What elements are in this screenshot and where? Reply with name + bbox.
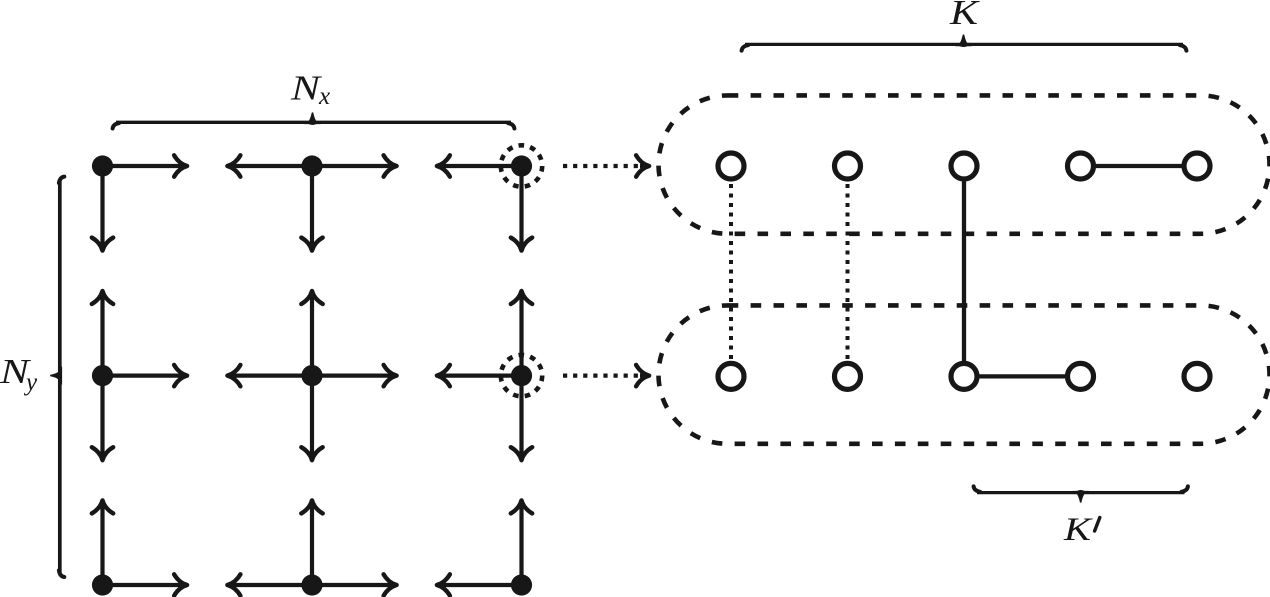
svg-text:y: y <box>23 369 38 396</box>
dotted halo circle around (3,2) <box>501 355 542 396</box>
arrow W from (2,2) <box>234 374 312 378</box>
grid node (1,3) dot <box>92 574 113 595</box>
brace K' (underbrace below bottom stadium) <box>977 491 1185 494</box>
top stadium circle 5 <box>1184 153 1210 179</box>
dotted link top c2 - bottom c2 <box>846 184 850 359</box>
grid node (3,2) dot <box>511 365 532 386</box>
arrow S from (2,2) <box>310 376 314 454</box>
solid link top c3 - bottom c3 <box>962 182 966 362</box>
arrow S from (3,2) <box>519 376 523 454</box>
top stadium circle 2 <box>835 153 861 179</box>
top stadium circle 4 <box>1068 153 1094 179</box>
grid node (1,1) dot <box>92 155 113 176</box>
brace Ny (left brace) <box>58 180 62 574</box>
arrow E from (1,1) <box>103 164 181 168</box>
arrow W from (2,3) <box>234 583 312 587</box>
grid node (1,2) dot <box>92 365 113 386</box>
dotted halo circle around (3,1) <box>501 145 542 186</box>
top stadium circle 1 <box>718 153 744 179</box>
arrow N from (2,2) <box>310 298 314 376</box>
arrow E from (2,1) <box>312 164 390 168</box>
grid node (3,1) dot <box>511 155 532 176</box>
arrow E from (1,3) <box>103 583 181 587</box>
arrow N from (2,3) <box>310 507 314 585</box>
bottom stadium circle 2 <box>835 363 861 389</box>
dotted arrow row2 to bottom stadium <box>563 374 641 378</box>
arrow S from (2,1) <box>310 166 314 244</box>
bottom stadium circle 4 <box>1068 363 1094 389</box>
svg-text:K: K <box>949 0 980 32</box>
svg-text:N: N <box>290 69 322 108</box>
arrow S from (3,1) <box>519 166 523 244</box>
grid node (3,3) dot <box>511 574 532 595</box>
top stadium dashed boundary <box>659 95 1270 233</box>
svg-text:K: K <box>1063 512 1094 548</box>
arrow W from (3,2) <box>444 374 522 378</box>
solid link top c4 - c5 <box>1096 164 1182 168</box>
dotted arrow row1 to top stadium <box>563 164 641 168</box>
svg-text:x: x <box>318 83 330 110</box>
bottom stadium circle 5 <box>1184 363 1210 389</box>
bottom stadium circle 3 <box>951 363 977 389</box>
arrow W from (3,1) <box>444 164 522 168</box>
arrow W from (2,1) <box>234 164 312 168</box>
arrow S from (1,1) <box>100 166 104 244</box>
arrow E from (2,3) <box>312 583 390 587</box>
bottom stadium dashed boundary <box>659 305 1270 443</box>
bottom stadium circle 1 <box>718 363 744 389</box>
grid node (2,3) dot <box>301 574 322 595</box>
dotted link top c1 - bottom c1 <box>729 184 733 359</box>
arrow N from (1,2) <box>100 298 104 376</box>
arrow N from (1,3) <box>100 507 104 585</box>
arrow W from (3,3) <box>444 583 522 587</box>
arrow N from (3,3) <box>519 507 523 585</box>
arrow E from (1,2) <box>103 374 181 378</box>
grid node (2,2) dot <box>301 365 322 386</box>
arrow E from (2,2) <box>312 374 390 378</box>
brace Nx (overbrace above grid) <box>116 121 511 124</box>
grid node (2,1) dot <box>301 155 322 176</box>
brace K (overbrace above top stadium) <box>745 43 1183 46</box>
solid link bottom c3 - c4 <box>980 374 1066 378</box>
arrow S from (1,2) <box>100 376 104 454</box>
arrow N from (3,2) <box>519 298 523 376</box>
top stadium circle 3 <box>951 153 977 179</box>
